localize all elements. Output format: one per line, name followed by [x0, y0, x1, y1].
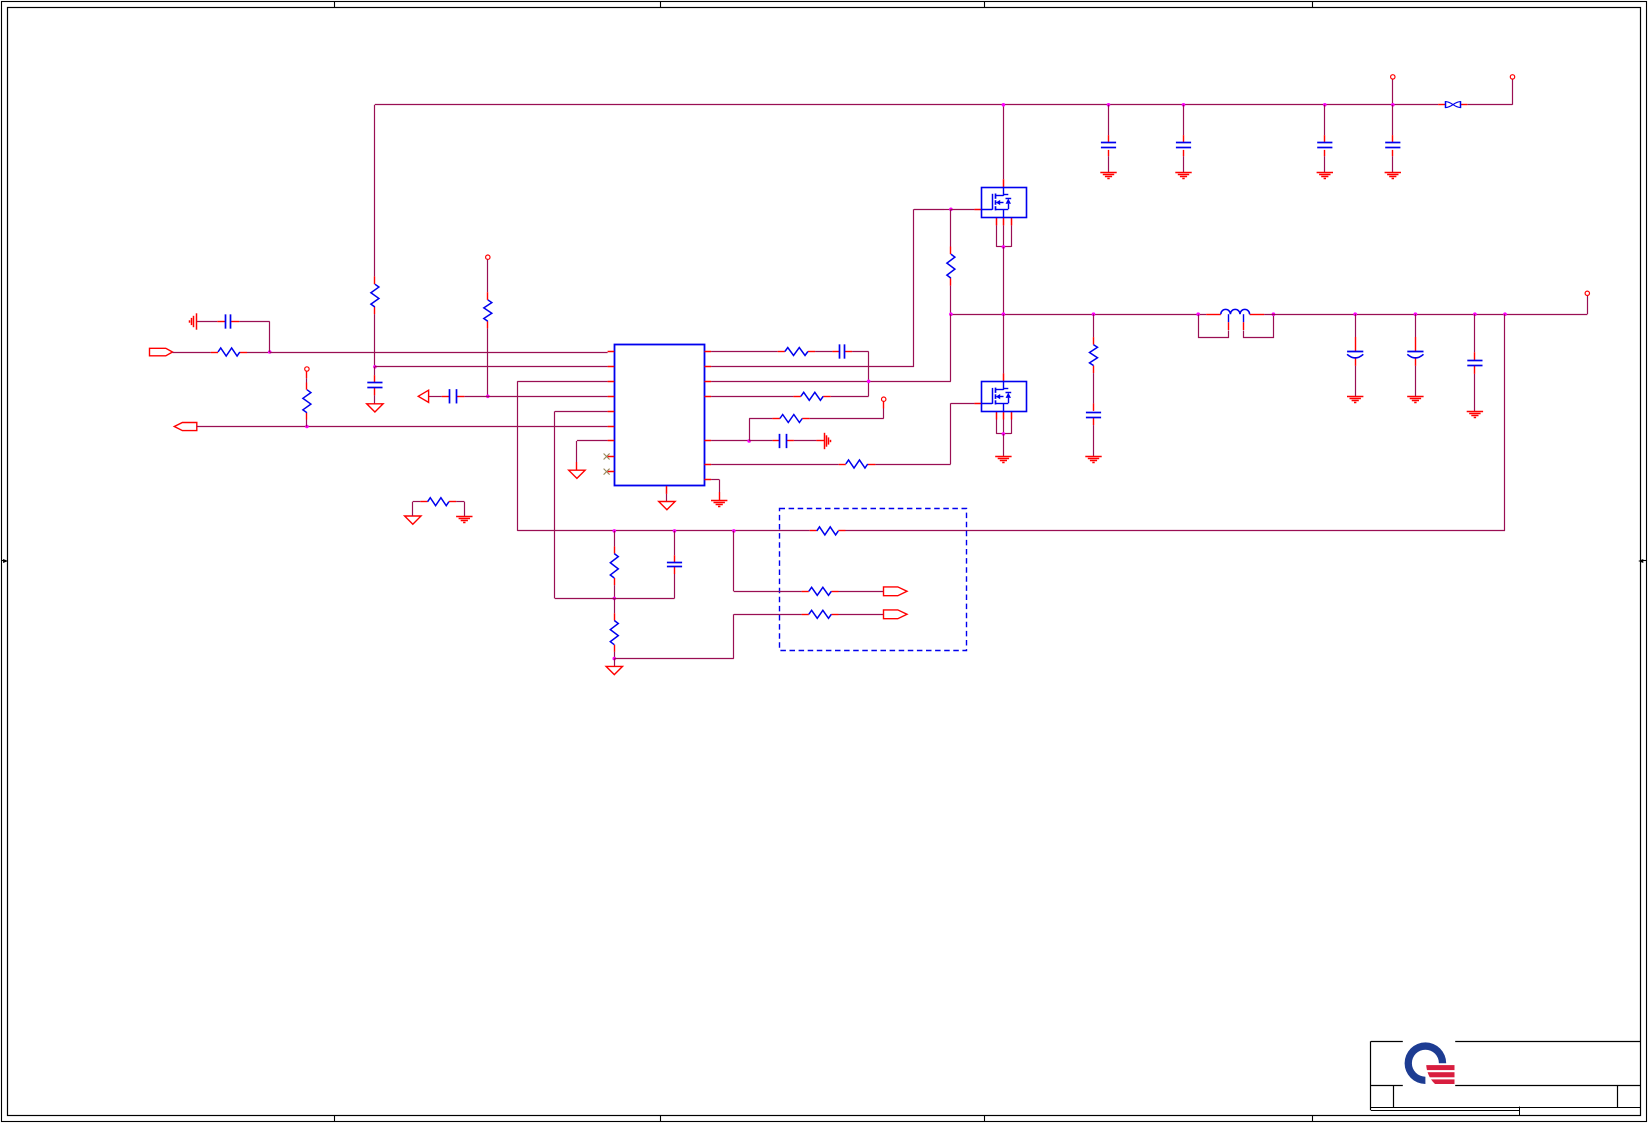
IC U1 pin stubs	[608, 352, 712, 494]
wire Q1 source join	[996, 225, 1011, 247]
ground AGND row7	[569, 470, 585, 478]
wire VIN top rail	[375, 104, 1438, 106]
resistor R1	[371, 284, 379, 307]
resistor R10 stubs	[211, 352, 247, 354]
junction Q1 source	[1002, 245, 1006, 249]
wire VOUT C7 drop	[1355, 314, 1357, 337]
title block vertical divider B	[1617, 1086, 1619, 1108]
wire R4 to C6	[1093, 373, 1095, 403]
wire tie right	[456, 502, 464, 517]
resistor R4 stubs	[1093, 337, 1095, 373]
wire VOUT terminal stub	[1587, 296, 1589, 315]
wire Q2 source join	[996, 420, 1011, 434]
capacitor C11	[367, 383, 382, 388]
wire row4 to IC	[488, 396, 608, 398]
wire tie left	[413, 502, 421, 517]
resistor R3 stubs	[839, 464, 876, 466]
terminal TP1 stub	[1392, 79, 1394, 105]
junction VIN cap C5	[1391, 103, 1395, 107]
wire R6 bottom	[614, 585, 616, 598]
resistor R13 stubs	[778, 351, 815, 353]
junction comp node	[867, 380, 871, 384]
wire VIN cap C3 drop	[1183, 105, 1185, 173]
junction Q2 source	[1002, 432, 1006, 436]
junction VIN cap C3	[1182, 103, 1186, 107]
ground GND C4	[1317, 173, 1333, 179]
capacitor C10 stubs	[674, 555, 676, 574]
wire FB sense drop	[1504, 314, 1506, 531]
resistor R4	[1090, 345, 1098, 366]
resistor R14	[801, 392, 823, 400]
wire C13 to node	[852, 352, 869, 382]
wire UGATE to Q1 gate	[951, 209, 975, 211]
resistor R12 top stub	[306, 371, 308, 389]
wire LGATE row	[711, 464, 839, 466]
ground AGND C12 left	[418, 390, 428, 402]
terminal TP3 VOUT	[1585, 291, 1589, 295]
wire row2	[375, 366, 608, 368]
title block vertical divider A	[1393, 1086, 1395, 1108]
transistor Q1 pin stubs	[974, 179, 1011, 225]
capacitor C8 polarized	[1407, 352, 1423, 358]
junction row1 filter	[268, 350, 272, 354]
wire VIN rail drop left	[374, 105, 376, 367]
resistor R13	[785, 348, 808, 356]
wire PHASE row3	[711, 314, 951, 381]
resistor R3	[846, 460, 868, 468]
capacitor C9	[1467, 361, 1482, 366]
inductor L1 sense taps	[1229, 314, 1244, 330]
wire row441 up link	[749, 419, 772, 442]
resistor R11	[484, 300, 492, 321]
wire R7 link	[614, 598, 616, 613]
company logo red stripes	[1420, 1065, 1455, 1084]
wire right row1	[711, 351, 778, 353]
wire C10 top	[674, 531, 676, 555]
junction VOUT C7	[1353, 312, 1357, 316]
resistor R2	[947, 254, 955, 278]
junction divider bottom	[613, 657, 617, 661]
resistor R10	[218, 348, 240, 356]
wire port row B	[614, 614, 801, 658]
resistor R15 stubs	[772, 418, 809, 420]
ground PGND tie	[456, 517, 472, 523]
wire IC row7	[577, 441, 608, 471]
resistor R16 stubs	[420, 501, 456, 503]
resistor R6 stubs	[614, 546, 616, 585]
wire VIN cap C5 drop	[1392, 105, 1394, 173]
no-connect X pin 9	[604, 469, 610, 475]
capacitor C4	[1317, 143, 1332, 148]
wire VOUT C9 drop	[1474, 314, 1476, 352]
resistor R8 stubs	[802, 591, 839, 593]
fuse F1 lead stubs	[1438, 104, 1467, 106]
capacitor C1 stubs	[217, 321, 239, 323]
resistor R9	[809, 610, 832, 618]
wire row1 to IC	[270, 352, 608, 354]
wire right row4	[711, 396, 793, 398]
wire R13 to C13	[815, 351, 832, 353]
title block sub row line	[1371, 1110, 1520, 1112]
junction FB port tap	[732, 529, 736, 533]
IC U1 body	[615, 345, 705, 486]
wire UGATE junction link	[944, 209, 951, 211]
wire FB to IC row3	[517, 381, 607, 531]
wire row1 left	[173, 352, 211, 354]
company logo blue ring	[1405, 1042, 1447, 1084]
wire C9 to ground	[1474, 374, 1476, 411]
ground GND C14 sideways	[825, 433, 831, 449]
ground GND C1 sideways	[190, 313, 197, 329]
transistor Q2 pin stubs	[974, 373, 1011, 419]
ground GND C2	[1100, 173, 1116, 179]
capacitor C5 stubs	[1392, 135, 1394, 142]
wire C8 to ground	[1415, 366, 1417, 396]
title block left vertical	[1370, 1041, 1372, 1110]
wire snubber drop	[1093, 314, 1095, 337]
resistor R15	[780, 415, 802, 423]
title block top line	[1371, 1041, 1641, 1043]
title block sub row divider	[1519, 1107, 1521, 1116]
wire C10 bottom	[674, 574, 676, 598]
capacitor C11 stubs	[374, 367, 376, 396]
port P2	[884, 610, 908, 619]
transistor Q2 (low-side NMOS)	[981, 381, 1026, 411]
resistor R6	[610, 554, 618, 578]
wire IC bottom pin	[666, 494, 668, 502]
wire C6 to ground	[1093, 425, 1095, 456]
wire FB line left	[517, 530, 809, 532]
junction R1 bottom row2	[373, 365, 377, 369]
junction FB divider mid	[613, 597, 617, 601]
terminal TP4	[486, 255, 490, 259]
wire VIN cap C2 drop	[1108, 105, 1110, 173]
border left mid arrow	[2, 559, 7, 562]
capacitor C8 stubs	[1415, 337, 1417, 366]
wire divider mid row	[555, 598, 675, 600]
capacitor C5	[1385, 143, 1400, 148]
resistor R7 stubs	[614, 613, 616, 652]
capacitor C9 stubs	[1474, 352, 1476, 374]
ground GND C8	[1407, 397, 1423, 403]
wire port row A	[734, 531, 802, 592]
wire VIN cap C4 drop	[1324, 105, 1326, 173]
terminal TP1 VIN	[1391, 75, 1395, 79]
wire C12 to ground	[429, 396, 442, 398]
title block row line	[1371, 1107, 1641, 1109]
border right mid arrow	[1639, 559, 1647, 562]
wire UGATE row	[711, 209, 944, 367]
wire IC row5 link	[555, 411, 608, 598]
capacitor C3 stubs	[1183, 135, 1185, 142]
junction C10 top	[673, 529, 677, 533]
terminal TP5	[305, 367, 309, 371]
resistor R5 stubs	[810, 530, 846, 532]
wire R2 to SW	[950, 286, 952, 315]
wire SW rail	[951, 314, 1206, 316]
capacitor C14	[780, 434, 787, 448]
wire IC PGND pin	[711, 480, 719, 501]
ground GND C7	[1347, 397, 1363, 403]
transistor Q1 (high-side NMOS)	[981, 187, 1026, 217]
capacitor C12 stubs	[442, 396, 465, 398]
junction row4	[486, 395, 490, 399]
wire row6	[197, 426, 608, 428]
wire LGATE to Q2 gate	[875, 403, 974, 464]
junction row6 pullup	[305, 425, 309, 429]
resistor R2 gate-SW wire	[950, 209, 952, 246]
terminal TP6	[882, 397, 886, 401]
wire divider bottom to ground	[614, 659, 616, 667]
capacitor C7 polarized	[1347, 352, 1363, 358]
wire C1 to ground	[196, 321, 217, 323]
wire TP4 down	[487, 259, 489, 292]
capacitor C13	[840, 344, 845, 358]
junction Q1 drain rail	[1002, 103, 1006, 107]
resistor R2 stubs	[950, 247, 952, 286]
resistor R7	[610, 621, 618, 645]
wire Q1 source to SW	[1003, 247, 1005, 314]
inductor L1 lead stubs	[1206, 314, 1264, 316]
ground GND Q2	[995, 457, 1011, 463]
ground AGND tie	[405, 516, 421, 524]
ground PGND IC	[711, 501, 727, 507]
resistor R16	[428, 498, 449, 506]
ground AGND C11	[367, 404, 383, 412]
capacitor C10	[667, 563, 682, 567]
capacitor C12	[450, 389, 457, 403]
wire filter branch	[239, 322, 270, 353]
junction row441	[747, 439, 751, 443]
wire right row3	[868, 381, 870, 396]
ground AGND IC bottom	[659, 502, 675, 510]
wire L1 sense loop left	[1199, 315, 1229, 338]
port EN input flag	[174, 423, 197, 431]
wire R12 bottom link	[306, 413, 308, 427]
port P1	[884, 587, 908, 596]
resistor R12	[303, 390, 311, 413]
capacitor C2 stubs	[1108, 135, 1110, 142]
capacitor C6 stubs	[1093, 403, 1095, 425]
wire R6 top	[614, 531, 616, 547]
capacitor C6	[1086, 413, 1101, 418]
resistor R9 stubs	[802, 614, 839, 616]
wire C14 to ground	[794, 440, 824, 442]
capacitor C1	[226, 314, 231, 328]
wire C7 to ground	[1355, 366, 1357, 396]
wire Q1 drain from rail	[1003, 105, 1005, 179]
wire VIN rail right segment	[1467, 79, 1512, 105]
junction SW phase	[949, 312, 953, 316]
wire VOUT rail	[1264, 314, 1587, 316]
ground GND C3	[1175, 173, 1191, 179]
resistor R14 stubs	[793, 396, 830, 398]
junction VIN cap C4	[1323, 103, 1327, 107]
junction VOUT feedback tap	[1503, 312, 1507, 316]
capacitor C14 stubs	[749, 440, 794, 442]
wire VOUT C8 drop	[1415, 314, 1417, 337]
ground GND C9	[1467, 412, 1483, 418]
junction L1 left	[1196, 312, 1200, 316]
wire Q2 drain from SW	[1003, 314, 1005, 373]
terminal TP2 VIN right	[1510, 75, 1514, 79]
capacitor C7 stubs	[1355, 337, 1357, 366]
ground GND C6	[1085, 457, 1101, 463]
wire C11 to ground	[374, 395, 376, 403]
resistor R8	[809, 587, 832, 595]
wire right row441	[711, 440, 749, 442]
no-connect X pin 8	[604, 454, 610, 460]
capacitor C13 stubs	[832, 351, 852, 353]
wire FB long line	[846, 530, 1506, 532]
junction VOUT C9	[1473, 312, 1477, 316]
wire R15 to terminal	[810, 401, 884, 418]
ground GND C5	[1385, 173, 1401, 179]
fuse F1	[1445, 101, 1461, 108]
junction L1 right	[1272, 312, 1276, 316]
wire R7 bottom	[614, 652, 616, 659]
wire row1 to junction	[247, 352, 270, 354]
wire L1 sense loop right	[1244, 315, 1274, 338]
wire Q2 source to ground	[1003, 434, 1005, 456]
wire R9 to port	[839, 614, 884, 616]
wire R8 to port	[839, 591, 884, 593]
title block middle line	[1371, 1085, 1641, 1087]
port VIN input flag	[150, 348, 173, 356]
capacitor C4 stubs	[1324, 135, 1326, 142]
junction FB divider top	[613, 529, 617, 533]
inductor L1	[1221, 309, 1250, 314]
wire R14 to node	[831, 396, 869, 398]
wire row4 cap branch	[464, 396, 488, 398]
junction VIN cap C2	[1107, 103, 1111, 107]
junction UGATE	[949, 208, 953, 212]
capacitor C2	[1101, 143, 1116, 148]
wire R11 to row4	[487, 328, 489, 396]
border zone tick marks	[335, 2, 1313, 1122]
resistor R1 stubs	[374, 276, 376, 314]
junction SW snubber	[1092, 312, 1096, 316]
resistor R11 stubs	[487, 292, 489, 328]
capacitor C3	[1176, 143, 1191, 148]
junction SW Q1Q2	[1002, 312, 1006, 316]
ground AGND divider	[606, 666, 622, 674]
junction VOUT C8	[1414, 312, 1418, 316]
resistor R5	[817, 527, 839, 535]
dashed option box	[780, 509, 967, 651]
